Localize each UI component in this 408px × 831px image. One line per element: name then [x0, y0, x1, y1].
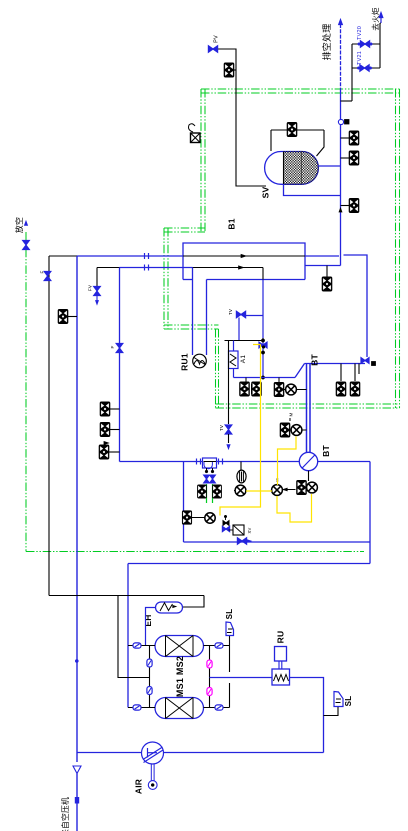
blind with hook on green boundary: [191, 133, 201, 143]
svg-text:来自空压机: 来自空压机: [60, 797, 70, 831]
utility valve stub 1: [110, 408, 120, 410]
SV relief loop right leg: [317, 130, 325, 156]
stub to valve V07: [340, 364, 342, 382]
junction dot header: [261, 339, 264, 342]
svg-text:RU: RU: [276, 631, 286, 644]
valve on cold line: [116, 343, 123, 348]
union tick on air line: [75, 798, 78, 804]
MS1 outlet stub: [204, 707, 230, 709]
drain line with arrow: [284, 489, 296, 491]
svg-text:M: M: [289, 412, 294, 416]
svg-text:RU1: RU1: [180, 353, 190, 371]
manifold lower header: [234, 377, 296, 379]
green battery-limit line lower horizontal: [26, 551, 364, 553]
regeneration header upper: [367, 541, 370, 543]
suction branch down: [183, 462, 185, 543]
signal line XV vertical: [260, 345, 262, 492]
silencer connection: [324, 707, 339, 716]
manifold reducer diagonal: [295, 364, 305, 378]
flare line top stub: [380, 22, 381, 24]
drain funnel on air line: [73, 766, 81, 774]
svg-text:MS1: MS1: [175, 678, 185, 697]
suction strainer: [203, 458, 217, 468]
junction dots on condensate drop: [261, 351, 264, 354]
SV inlet top elbow: [218, 49, 236, 70]
signal branch from mid ejector: [278, 437, 297, 486]
valve V03: [349, 131, 359, 145]
blower drain valve and ejector: [297, 481, 307, 495]
valve V12 with vent flag: [99, 445, 109, 459]
MS2 inlet stub: [128, 645, 155, 647]
silencer SL top: [226, 622, 234, 636]
SV outlet to riser: [319, 165, 341, 167]
instrument tap on riser: [338, 119, 343, 124]
valve train vertical to arrow: [228, 341, 230, 425]
blue vent riser (main vertical line): [340, 24, 342, 88]
strainer drain valves (double): [206, 468, 208, 472]
arrow into suction line: [227, 445, 230, 449]
valve TV02: [236, 311, 241, 317]
black supply from corner: [49, 255, 77, 257]
flow arrow on riser: [339, 208, 342, 212]
blower BT: [299, 452, 317, 470]
valve V06: [322, 277, 332, 291]
drain valve: [94, 286, 101, 291]
arrow on vent riser top: [338, 19, 342, 25]
green box bottom edge: [216, 403, 400, 405]
bypass to heater EH: [183, 596, 205, 608]
strainer unions: [196, 459, 198, 465]
svg-text:SV: SV: [261, 187, 271, 199]
outlet crossover: [209, 646, 211, 708]
main cold line vertical (to blower suction): [119, 268, 121, 462]
B1 hot line (upper): [183, 255, 305, 257]
RU connector: [278, 661, 280, 669]
air filter inlet instrument: [237, 470, 246, 483]
junction dot on air line: [75, 659, 78, 662]
svg-text:BT: BT: [310, 354, 320, 366]
valve on green limit line: [23, 240, 30, 245]
valve stub to air line: [68, 316, 77, 318]
valve TV01: [225, 425, 232, 430]
svg-text:BT: BT: [321, 445, 331, 457]
heater RU element box: [272, 669, 290, 685]
svg-text:SL: SL: [225, 609, 234, 620]
green box notch bottom edge: [164, 324, 219, 326]
MS2 outlet valve: [215, 643, 223, 648]
MS1 inlet stub: [128, 707, 155, 709]
line break marks lower: [144, 265, 146, 271]
svg-text:FV: FV: [88, 285, 93, 291]
arrow at green limit line top: [24, 221, 27, 225]
utility valve stub 2: [110, 429, 120, 431]
MS1 inlet valve: [133, 705, 141, 710]
black header down-left: [48, 256, 50, 596]
blower suction line: [120, 461, 300, 463]
duct to fan right edge: [206, 280, 208, 356]
valve on vent line: [237, 538, 242, 544]
product line after RU: [290, 678, 324, 753]
svg-text:F: F: [110, 345, 115, 348]
flow arrow lower: [239, 266, 244, 269]
SV inlet line from left: [236, 70, 266, 186]
valve V09: [58, 310, 68, 324]
svg-text:TV: TV: [228, 309, 233, 315]
blower discharge line: [318, 461, 370, 463]
SV relief loop left leg: [270, 130, 272, 151]
valve V04: [349, 151, 359, 165]
svg-text:B1: B1: [227, 218, 237, 229]
collect header horizontal: [225, 340, 264, 342]
svg-text:排空处理: 排空处理: [321, 24, 332, 61]
valve and ejector under manifold right: [274, 383, 284, 397]
ejector vent: [272, 485, 283, 496]
green box lower-left edge: [215, 329, 217, 408]
regeneration header lower: [128, 563, 370, 565]
solenoid pilot assembly: [225, 516, 227, 520]
MS2 outlet stub: [204, 645, 230, 647]
TV02 outlet drop: [238, 318, 240, 341]
drop to filter A1: [233, 341, 235, 352]
duct to fan left edge: [192, 268, 194, 356]
MS1 outlet valve: [215, 705, 223, 710]
stub to valve V06: [326, 266, 328, 278]
svg-text:TV20: TV20: [357, 26, 363, 40]
green box right edge: [395, 89, 397, 408]
signal to inlet ejector: [246, 490, 272, 492]
flare header tap to riser: [341, 100, 353, 102]
svg-text:AIR: AIR: [134, 779, 144, 794]
valve V01 on SV inlet: [224, 63, 234, 77]
green box upper-left edge: [200, 89, 202, 232]
compressor motor: [150, 764, 152, 781]
valves under manifold left pair: [240, 382, 250, 396]
green battery-limit line (lower single dash-dot) vertical: [25, 232, 27, 552]
green box notch top edge: [164, 227, 205, 229]
crossover valve lower: [147, 687, 152, 695]
process line to B1 lower: [120, 267, 193, 269]
discharge run to compressor: [164, 752, 324, 754]
valve V07: [336, 382, 346, 396]
process line to B1 upper: [77, 255, 183, 257]
valve and ejector mid pair: [280, 423, 290, 437]
valve V05: [349, 199, 359, 213]
signal stub to XV valve: [253, 344, 261, 346]
valve PV inlet: [208, 46, 213, 52]
purge block and bleed: [183, 517, 186, 519]
svg-text:TV: TV: [219, 425, 224, 431]
compressor suction: [77, 752, 142, 754]
product valve lower (magenta): [207, 688, 212, 696]
suction drop pipe (double line): [306, 364, 308, 453]
valve TV21: [360, 65, 365, 71]
svg-text:SL: SL: [344, 696, 353, 707]
vent to silencer line: [184, 541, 368, 543]
stub to valve V08: [354, 364, 356, 382]
silencer SL bottom: [334, 692, 343, 707]
heater EH: [156, 602, 183, 613]
condensate drop from B1 lower line: [262, 268, 264, 280]
svg-text:F: F: [40, 270, 45, 273]
inlet crossover: [149, 646, 151, 708]
green purge jumpers: [206, 484, 208, 503]
condensate drop lower part: [262, 280, 264, 378]
vessel SV shell: [265, 152, 319, 185]
product valve upper (magenta): [207, 660, 212, 668]
valve V10: [100, 402, 110, 416]
exchanger B1 shell bottom left: [183, 279, 193, 281]
air inlet ejector: [235, 485, 246, 496]
flare header left vertical: [351, 44, 353, 101]
black stub from drain header: [97, 267, 120, 269]
B1 hot line (lower): [193, 267, 264, 269]
control valve XV on condensate drop: [259, 342, 263, 348]
svg-text:A1: A1: [240, 355, 247, 364]
regen drop to MS vessels: [127, 564, 129, 708]
valve at header end: [361, 358, 365, 364]
svg-text:XV: XV: [247, 528, 252, 534]
B1 outlet upper to riser: [305, 255, 339, 257]
main air line vertical: [76, 256, 78, 762]
vessel SV packing boundary: [283, 152, 285, 185]
vent header to silencer: [229, 636, 231, 673]
EH outlet drop: [146, 608, 156, 646]
compressor AIR: [142, 742, 164, 764]
blower drain stub: [308, 471, 310, 481]
svg-text:MS2: MS2: [175, 656, 185, 675]
svg-text:放空: 放空: [14, 217, 24, 233]
black bypass header horizontal: [49, 595, 204, 597]
exchanger B1 shell top: [183, 243, 305, 280]
exchanger B1 shell bottom right: [207, 279, 306, 281]
valve stub lower right: [341, 205, 350, 207]
signal branch left to solenoid: [220, 491, 261, 516]
MS2 inlet valve: [133, 643, 141, 648]
purge connection valves: [198, 485, 207, 498]
flare branch upper: [352, 43, 380, 45]
B1 outlet lower: [305, 265, 341, 267]
discharge downcomer: [369, 462, 371, 564]
vessel MS1: [155, 698, 204, 719]
SV relief loop top: [271, 129, 324, 131]
heater RU terminal box: [275, 647, 287, 662]
svg-text:PV: PV: [214, 35, 220, 43]
riser jog segment to BT tank valve line: [344, 255, 368, 357]
SV bottom outlet: [284, 184, 341, 196]
product line to RU heater: [210, 677, 273, 679]
valve on black header: [44, 271, 51, 276]
valve V02 on relief loop: [287, 123, 297, 137]
flare branch lower: [352, 67, 380, 69]
manifold upper header: [305, 363, 366, 365]
fan RU1: [193, 354, 207, 368]
vessel MS2: [155, 636, 204, 657]
main air line lower segment: [76, 774, 78, 831]
bypass drop to regen line: [118, 596, 150, 678]
crossover valve upper: [147, 659, 152, 667]
arrow to flare: [380, 15, 382, 23]
green battery-limit box (outer, double dash-dot) top edge: [201, 88, 400, 90]
line break marks upper: [144, 253, 146, 259]
utility valve stub 3: [108, 451, 120, 453]
branch to valve TV02: [246, 315, 263, 317]
svg-text:EH: EH: [143, 614, 153, 626]
svg-text:去火炬: 去火炬: [370, 7, 380, 31]
filter A1: [229, 351, 239, 369]
flare header right vertical: [379, 23, 381, 68]
flow arrow upper: [241, 254, 246, 257]
valve TV20: [360, 41, 365, 47]
valve V08: [350, 382, 360, 396]
valve stub mid right: [341, 157, 350, 159]
valve V11: [100, 423, 110, 437]
svg-text:TV21: TV21: [357, 51, 363, 65]
signal loop to blower drain: [277, 494, 312, 522]
drain header vertical: [96, 268, 98, 288]
green box notch left edge: [163, 228, 165, 329]
valve stub upper right: [341, 137, 350, 139]
filter A1 outlet: [233, 369, 235, 378]
